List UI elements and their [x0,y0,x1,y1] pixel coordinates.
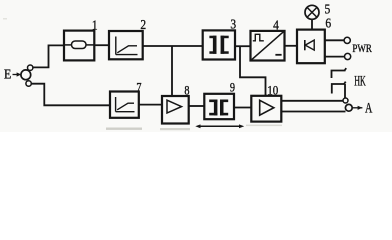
svg-text:E: E [4,66,11,82]
svg-text:PWR: PWR [352,43,372,55]
svg-text:5: 5 [325,1,331,16]
svg-text:9: 9 [230,82,235,95]
svg-text:6: 6 [325,15,331,30]
svg-text:A: A [365,100,372,116]
svg-text:8: 8 [184,85,189,98]
svg-text:4: 4 [273,17,279,32]
svg-text:1: 1 [92,18,98,33]
svg-text:10: 10 [267,84,278,98]
svg-text:2: 2 [140,17,146,32]
svg-text:3: 3 [230,17,236,32]
svg-text:7: 7 [136,81,141,94]
svg-text:HK: HK [354,74,366,90]
